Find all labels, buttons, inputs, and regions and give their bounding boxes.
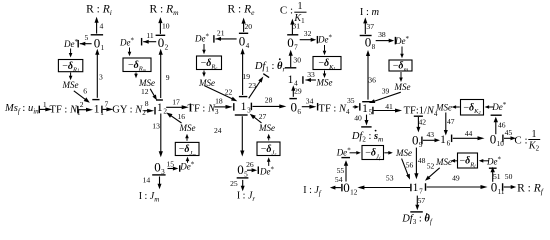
bond 38 xyxy=(376,40,391,42)
svg-text:36: 36 xyxy=(368,76,376,85)
svg-text:47: 47 xyxy=(447,117,455,126)
uncertainty box -dK1 xyxy=(313,57,341,70)
svg-text:18: 18 xyxy=(215,97,223,106)
svg-text:−δRf: −δRf xyxy=(459,156,476,169)
uncertainty box -dRf xyxy=(458,153,478,168)
bond 53 xyxy=(361,187,410,189)
bond 40 xyxy=(366,115,368,122)
svg-text:0: 0 xyxy=(94,35,101,50)
svg-text:−δK2: −δK2 xyxy=(463,102,481,115)
svg-text:14: 14 xyxy=(143,176,151,185)
svg-text:28: 28 xyxy=(265,96,273,105)
svg-text:43: 43 xyxy=(427,130,435,139)
uncertainty box -dRe xyxy=(197,56,222,70)
svg-text:De*: De* xyxy=(317,34,333,45)
svg-text:12: 12 xyxy=(141,87,149,96)
svg-text:1: 1 xyxy=(532,129,537,140)
svg-text:0: 0 xyxy=(239,33,246,48)
svg-text:MSe: MSe xyxy=(435,157,452,167)
svg-text:I : m: I : m xyxy=(360,7,380,18)
svg-text:C :: C : xyxy=(514,135,527,147)
svg-text:MSe: MSe xyxy=(258,123,275,133)
flow detector Df1 xyxy=(279,58,281,60)
svg-text:−δR i: −δR i xyxy=(62,61,79,74)
svg-text:MSe: MSe xyxy=(179,123,196,133)
svg-text:MSe: MSe xyxy=(62,80,79,90)
svg-text:MSe: MSe xyxy=(394,82,411,92)
signal delta->MSe (K1) xyxy=(324,71,326,75)
signal De*->delta (Re) xyxy=(203,44,205,51)
svg-text:GY : N2: GY : N2 xyxy=(112,105,146,118)
svg-text:Df1 : θr: Df1 : θr xyxy=(254,61,286,74)
svg-text:0: 0 xyxy=(412,133,419,148)
svg-text:De*: De* xyxy=(394,35,410,46)
bond 56 xyxy=(402,159,409,177)
signal MSe<-delta (Jr) xyxy=(268,137,270,140)
svg-text:6: 6 xyxy=(83,87,87,96)
svg-text:3: 3 xyxy=(99,73,103,82)
uncertainty box -dJm xyxy=(175,142,199,155)
bond 32 xyxy=(300,39,313,41)
svg-text:39: 39 xyxy=(382,87,390,96)
svg-text:De*: De* xyxy=(336,147,352,158)
svg-text:0: 0 xyxy=(491,180,498,195)
svg-text:1: 1 xyxy=(298,1,303,12)
bond 23 xyxy=(249,79,262,98)
svg-text:−δJm: −δJm xyxy=(179,144,197,157)
svg-text:R : Rf: R : Rf xyxy=(517,182,544,196)
svg-text:37: 37 xyxy=(366,22,374,31)
svg-text:−δRe: −δRe xyxy=(201,58,218,71)
svg-text:De*: De* xyxy=(194,33,210,44)
svg-text:51: 51 xyxy=(493,172,501,181)
bond 50 xyxy=(502,183,504,191)
svg-text:4: 4 xyxy=(100,22,104,31)
svg-text:Df2 : sm: Df2 : sm xyxy=(351,131,383,144)
uncertainty box -dRi xyxy=(58,60,82,72)
svg-text:K2: K2 xyxy=(528,140,540,152)
svg-text:I : Jf: I : Jf xyxy=(303,185,322,198)
bond 54 xyxy=(333,187,341,189)
svg-text:6: 6 xyxy=(447,140,451,148)
svg-text:3: 3 xyxy=(247,107,251,115)
bond 48 xyxy=(415,148,417,176)
svg-text:1: 1 xyxy=(440,134,446,146)
svg-text:23: 23 xyxy=(248,81,256,90)
svg-text:7: 7 xyxy=(294,44,298,52)
svg-text:54: 54 xyxy=(335,175,343,184)
svg-text:1: 1 xyxy=(101,44,105,52)
signal delta->MSe (Re) xyxy=(203,71,205,74)
svg-text:24: 24 xyxy=(214,126,222,135)
svg-text:6: 6 xyxy=(297,108,301,116)
bond 9 xyxy=(160,53,162,99)
svg-text:20: 20 xyxy=(245,22,253,31)
signal De*->delta (Rm) xyxy=(129,48,131,53)
svg-text:32: 32 xyxy=(304,29,312,38)
bond 47 xyxy=(445,113,447,132)
svg-text:27: 27 xyxy=(259,112,267,121)
signal delta<-De* (Rf) xyxy=(482,160,488,162)
bond 34 xyxy=(302,106,313,108)
svg-text:7: 7 xyxy=(419,188,423,196)
bond 13 xyxy=(160,114,162,154)
bond 27 xyxy=(252,116,261,123)
bond 2 xyxy=(77,106,79,114)
svg-text:15: 15 xyxy=(167,159,175,168)
svg-text:−δRm: −δRm xyxy=(128,60,147,73)
bond 42 xyxy=(414,115,423,117)
svg-text:1: 1 xyxy=(413,182,419,194)
svg-text:−δm: −δm xyxy=(393,61,409,74)
svg-text:48: 48 xyxy=(418,156,426,165)
signal delta<-De* (Jm) xyxy=(187,160,189,163)
uncertainty box -dJr xyxy=(257,142,280,156)
svg-text:I : Jm: I : Jm xyxy=(139,191,160,204)
bond 57 xyxy=(416,196,418,207)
flow detector Df3 xyxy=(426,213,428,215)
svg-text:−δK1: −δK1 xyxy=(318,58,335,71)
bond 25 xyxy=(237,177,249,179)
bond 22 xyxy=(205,86,235,100)
svg-text:MSe: MSe xyxy=(316,78,333,88)
svg-text:MSe: MSe xyxy=(435,103,452,113)
bond 41 xyxy=(372,107,374,115)
signal De*->delta (K1) xyxy=(324,45,326,52)
svg-text:34: 34 xyxy=(306,97,314,106)
svg-text:11: 11 xyxy=(146,31,154,40)
svg-text:49: 49 xyxy=(452,173,460,182)
bond 26 xyxy=(247,169,254,171)
svg-text:1: 1 xyxy=(241,101,247,113)
svg-text:MSe: MSe xyxy=(395,148,412,158)
bond 3 xyxy=(96,53,98,98)
svg-text:TF : N1: TF : N1 xyxy=(50,104,81,117)
svg-text:Msf : uin: Msf : uin xyxy=(4,103,39,116)
svg-text:11: 11 xyxy=(498,188,505,196)
uncertainty box -dK2 xyxy=(461,100,484,116)
svg-text:C :: C : xyxy=(280,5,293,17)
svg-text:K1: K1 xyxy=(293,13,305,25)
svg-text:R : Rm: R : Rm xyxy=(149,3,179,16)
svg-text:8: 8 xyxy=(145,99,149,108)
svg-text:46: 46 xyxy=(498,120,506,129)
svg-text:De*: De* xyxy=(491,101,507,112)
bond 33 xyxy=(302,76,304,84)
svg-text:4: 4 xyxy=(246,42,250,50)
svg-text:1: 1 xyxy=(94,104,100,116)
svg-text:De*: De* xyxy=(63,38,79,49)
svg-text:29: 29 xyxy=(294,87,302,96)
svg-text:2: 2 xyxy=(165,44,169,52)
bond 29 xyxy=(289,98,297,100)
svg-text:53: 53 xyxy=(386,174,394,183)
svg-text:19: 19 xyxy=(242,72,250,81)
svg-text:50: 50 xyxy=(505,172,513,181)
svg-text:0: 0 xyxy=(158,35,165,50)
bond 14 xyxy=(152,174,165,176)
svg-text:0: 0 xyxy=(154,159,161,174)
svg-text:1: 1 xyxy=(288,74,294,86)
signal delta->MSe (Rm) xyxy=(135,73,137,75)
svg-text:R : Ri: R : Ri xyxy=(86,3,112,16)
svg-text:De*: De* xyxy=(259,166,275,177)
bond 16 xyxy=(169,114,182,123)
bond 18 xyxy=(214,106,229,108)
bond 43 xyxy=(421,137,423,145)
bond 12 xyxy=(150,89,155,98)
svg-text:2: 2 xyxy=(80,100,84,109)
signal delta->MSe (m) xyxy=(400,72,402,79)
bond 51 xyxy=(492,169,494,182)
svg-text:22: 22 xyxy=(225,87,233,96)
bond 55 xyxy=(345,163,347,181)
signal delta->MSe (Jf) xyxy=(384,152,389,154)
flow detector Df2 xyxy=(375,130,377,132)
bond 11 xyxy=(141,38,143,46)
bond 1 xyxy=(38,106,40,114)
signal MSe<-delta (K2) xyxy=(455,106,460,108)
bond 37 xyxy=(364,21,366,34)
bond 8 xyxy=(144,110,151,112)
svg-text:0: 0 xyxy=(365,34,372,49)
svg-text:35: 35 xyxy=(347,96,355,105)
bond 10 xyxy=(159,21,161,34)
svg-text:33: 33 xyxy=(307,70,315,79)
svg-text:5: 5 xyxy=(85,33,89,42)
svg-text:1: 1 xyxy=(157,102,163,114)
svg-text:45: 45 xyxy=(505,128,513,137)
svg-text:13: 13 xyxy=(152,122,160,131)
bond 31 xyxy=(291,22,293,34)
svg-text:30: 30 xyxy=(293,55,301,64)
svg-text:9: 9 xyxy=(166,73,170,82)
svg-text:16: 16 xyxy=(178,112,186,121)
svg-text:26: 26 xyxy=(246,160,254,169)
svg-text:52: 52 xyxy=(427,162,435,171)
bond 44 xyxy=(451,135,453,143)
svg-text:21: 21 xyxy=(217,28,225,37)
svg-text:−δJf: −δJf xyxy=(365,148,381,161)
svg-text:0: 0 xyxy=(343,180,350,195)
svg-text:0: 0 xyxy=(287,35,294,50)
svg-text:40: 40 xyxy=(354,114,362,123)
svg-text:10: 10 xyxy=(162,21,170,30)
bond 19 xyxy=(242,52,244,95)
svg-text:R : Re: R : Re xyxy=(228,3,256,16)
signal MSe<-delta (Jm) xyxy=(186,137,188,141)
svg-text:17: 17 xyxy=(172,98,180,107)
bond 21 xyxy=(213,35,215,43)
signal delta<-De* (Jr) xyxy=(268,161,270,166)
bond 4 xyxy=(96,21,98,34)
svg-text:0: 0 xyxy=(291,99,298,114)
uncertainty box -dRm xyxy=(123,58,151,72)
bond 46 xyxy=(491,114,502,116)
svg-text:12: 12 xyxy=(350,189,358,197)
signal De*->delta (m) xyxy=(401,47,403,55)
svg-text:57: 57 xyxy=(418,196,426,205)
signal MSe<-delta (Rf) xyxy=(454,160,457,162)
svg-text:5: 5 xyxy=(369,109,373,117)
bond 35 xyxy=(353,106,357,108)
svg-text:25: 25 xyxy=(230,179,238,188)
signal delta->MSe (Ri) xyxy=(70,73,72,77)
svg-text:38: 38 xyxy=(378,30,386,39)
bond 52 xyxy=(427,168,439,179)
svg-text:7: 7 xyxy=(105,99,109,108)
svg-text:2: 2 xyxy=(163,108,167,116)
bond 49 xyxy=(425,183,427,191)
svg-text:56: 56 xyxy=(406,160,414,169)
bond 36 xyxy=(367,54,369,100)
svg-text:1: 1 xyxy=(43,100,47,109)
bond 20 xyxy=(243,21,245,32)
svg-text:De*: De* xyxy=(179,160,195,171)
bond 15 xyxy=(168,168,175,170)
svg-text:1: 1 xyxy=(362,103,368,115)
bond 39 xyxy=(372,92,400,102)
svg-text:Df3 : θf: Df3 : θf xyxy=(401,214,433,227)
svg-text:0: 0 xyxy=(237,162,244,177)
bond 45 xyxy=(502,135,504,143)
svg-text:4: 4 xyxy=(294,79,298,87)
svg-text:44: 44 xyxy=(465,129,473,138)
svg-text:TF : N4: TF : N4 xyxy=(319,103,350,116)
bond 28 xyxy=(250,103,252,111)
svg-text:55: 55 xyxy=(337,166,345,175)
bond 17 xyxy=(166,106,185,108)
bond 7 xyxy=(101,106,103,114)
bond 5 xyxy=(77,40,79,48)
svg-text:8: 8 xyxy=(372,43,376,51)
signal De*->delta (Jf) xyxy=(350,152,358,154)
svg-text:De*: De* xyxy=(119,37,135,48)
bond 6 xyxy=(74,91,88,101)
signal De*->delta (Ri) xyxy=(70,49,72,55)
svg-text:I : Jr: I : Jr xyxy=(237,191,256,204)
svg-text:41: 41 xyxy=(385,102,393,111)
uncertainty box -dJf xyxy=(362,146,384,160)
bond 24 xyxy=(235,114,248,116)
bond 30 xyxy=(290,53,292,67)
signal delta<-De* (K2) xyxy=(488,106,493,108)
uncertainty box -dm xyxy=(389,60,412,71)
svg-text:−δJr: −δJr xyxy=(261,144,277,157)
svg-text:42: 42 xyxy=(419,118,427,127)
